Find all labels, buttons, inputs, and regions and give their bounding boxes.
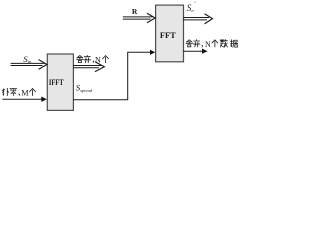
block FFT — [156, 5, 184, 62]
input Sin : hollow double-line arrow into IFFT left, y=64.4 — [11, 60, 47, 70]
label sheqi, N ge shuju — [186, 40, 192, 47]
label buling, M ge — [2, 88, 8, 95]
FFT output S' : hollow arrow, y=18.6 — [183, 14, 213, 24]
FFT output discard: solid arrow, y=51 — [183, 49, 208, 54]
svg-text:IFFT: IFFT — [49, 77, 64, 87]
input R : hollow arrow into FFT left, y=18 — [123, 13, 155, 23]
svg-text:M: M — [21, 89, 29, 98]
block IFFT — [47, 54, 73, 110]
svg-text:R: R — [132, 7, 138, 16]
svg-text:N: N — [205, 40, 211, 49]
input buling,M ge : solid arrow into IFFT left, y=99 — [2, 97, 46, 102]
label shewqi, N ge — [77, 56, 83, 63]
svg-text:N: N — [95, 56, 101, 65]
IFFT output discard arrow : hollow, y=66.7 — [73, 62, 104, 72]
IFFT output S wire to FFT : polyline with solid arrowhead — [73, 50, 155, 100]
svg-text:FFT: FFT — [160, 30, 176, 40]
